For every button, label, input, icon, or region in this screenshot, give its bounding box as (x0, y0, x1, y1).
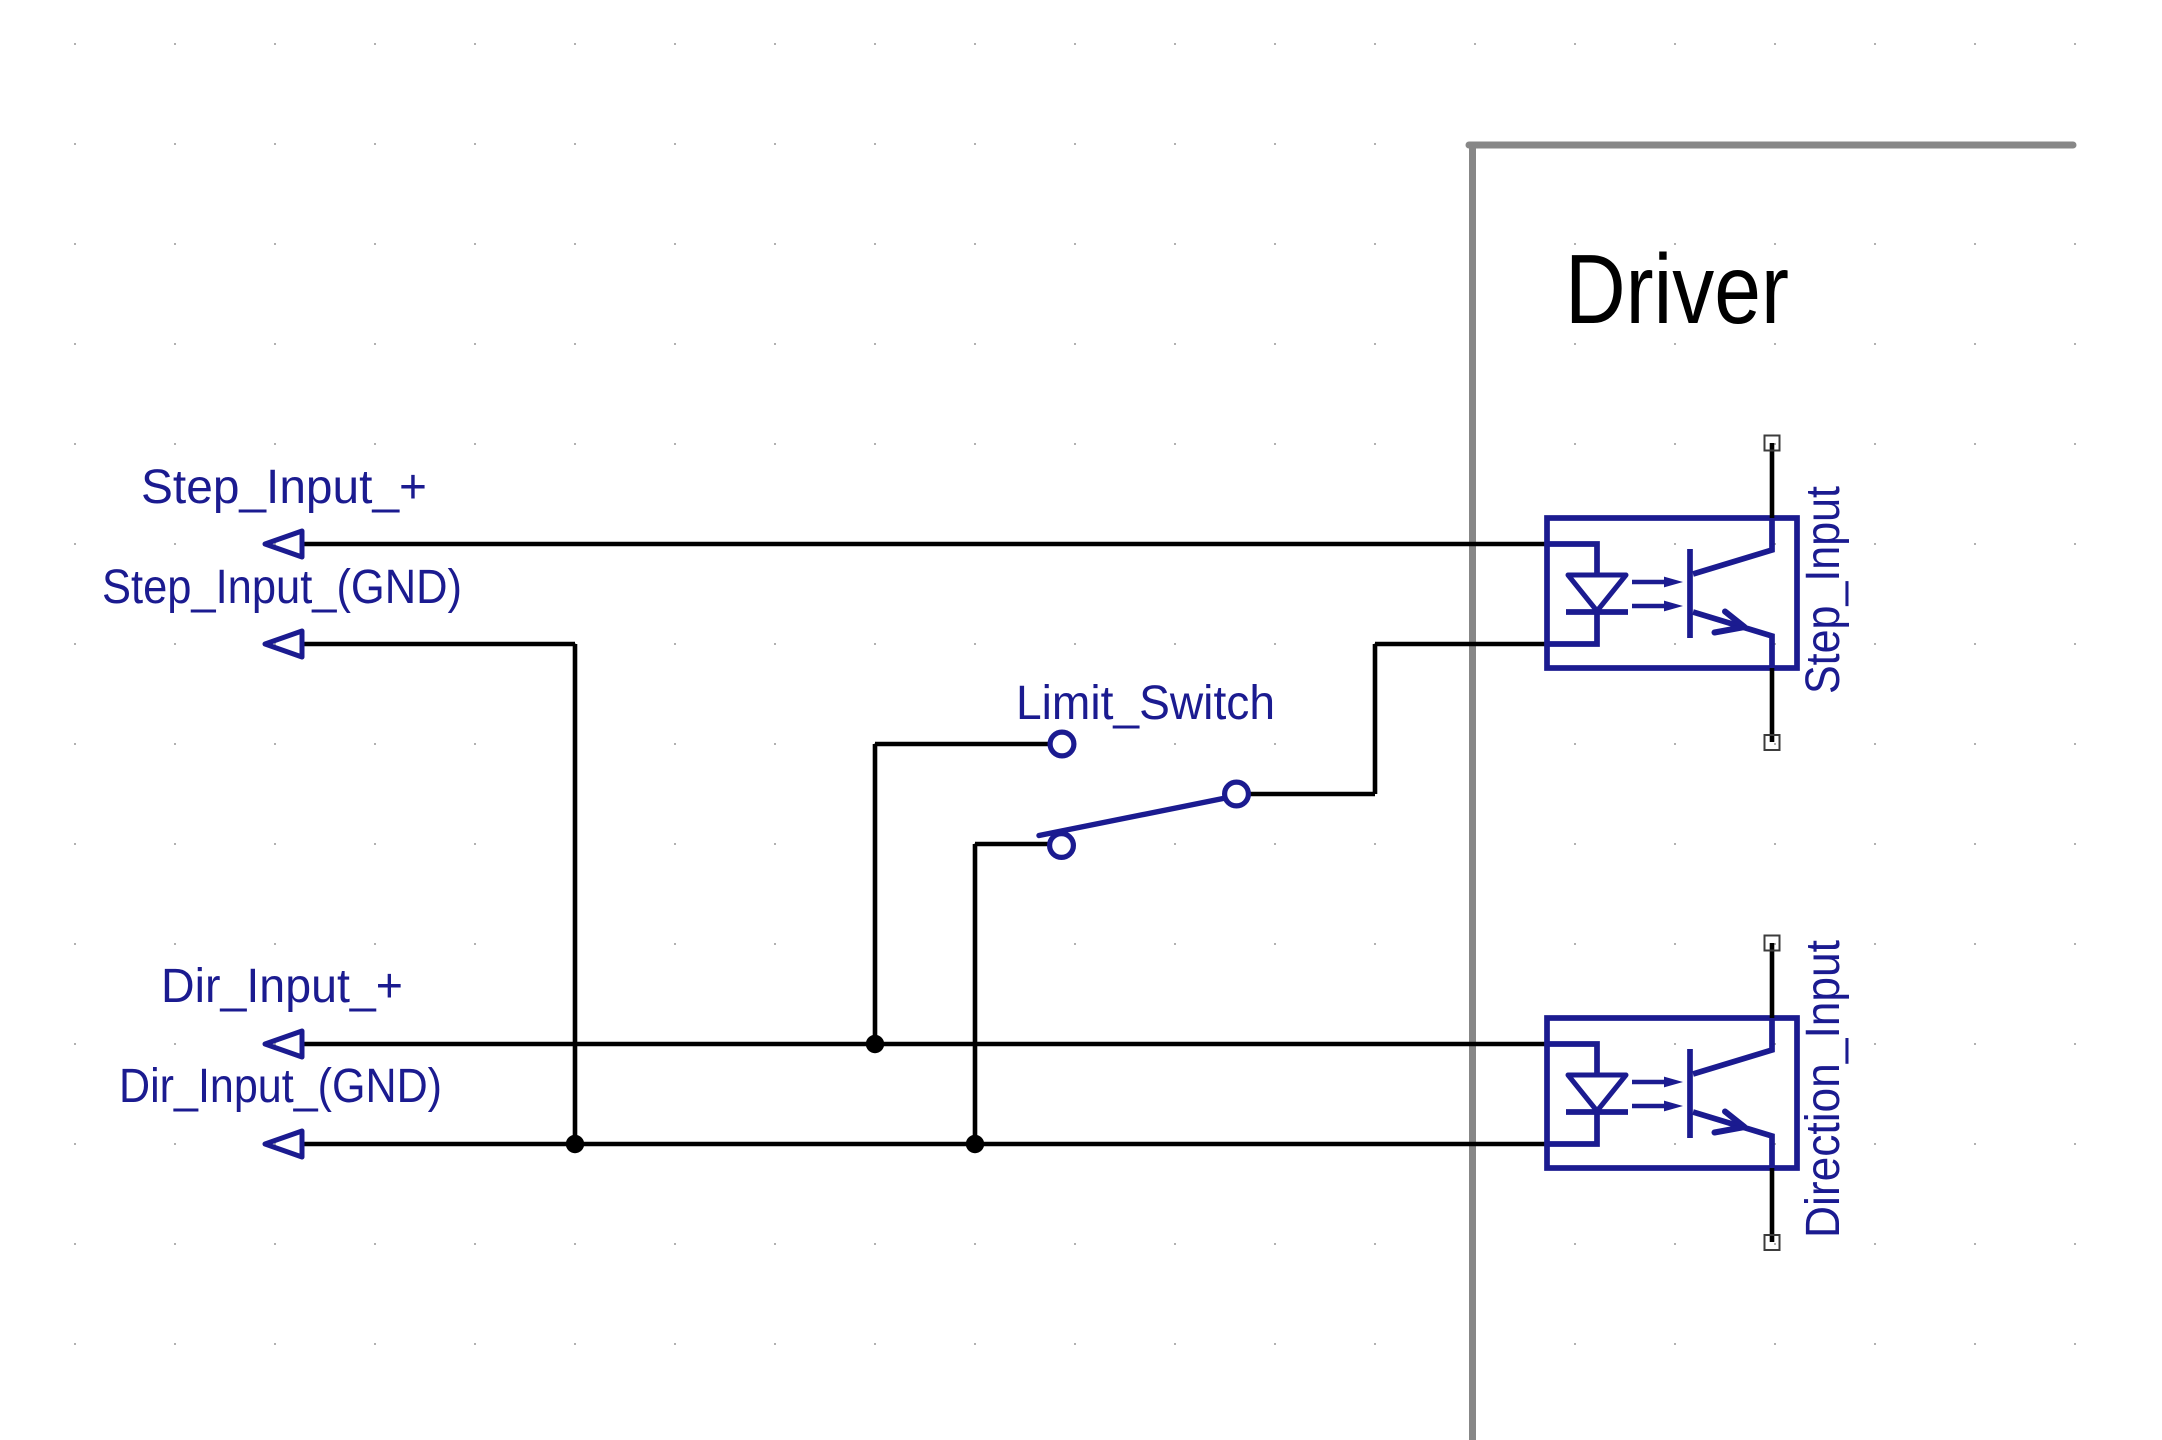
U1 light emission arrows (1632, 580, 1668, 585)
U1 phototransistor emitter (1693, 612, 1772, 668)
U1 LED anode/cathode leads (1547, 544, 1597, 644)
svg-text:Dir_Input_(GND): Dir_Input_(GND) (119, 1060, 442, 1113)
wire switch contact A horizontal (875, 742, 1049, 747)
hierarchical label arrow Step_Input_+ (265, 531, 302, 557)
U1 LED triangle (1568, 575, 1626, 611)
U2 collector pin open-end square (1765, 936, 1780, 951)
junction at switch-A / Dir_Input_+ (866, 1035, 884, 1053)
svg-text:Step_Input_+: Step_Input_+ (141, 461, 427, 514)
U2 phototransistor base bar (1687, 1049, 1693, 1138)
hierarchical sheet "Driver" boundary (top edge) (1469, 142, 2073, 149)
U1 phototransistor base bar (1687, 549, 1693, 638)
U2 emitter pin open-end square (1765, 1235, 1780, 1250)
optocoupler U2 body (1547, 1018, 1797, 1168)
hierarchical label arrow Dir_Input_+ (265, 1031, 302, 1057)
U1 phototransistor collector (1693, 518, 1772, 574)
wire Step_Input_+ : label arrow to U1 anode pin (302, 542, 1548, 547)
wire switch contact B horizontal (975, 842, 1049, 847)
U1 emitter arrow (1715, 612, 1745, 633)
svg-text:Limit_Switch: Limit_Switch (1016, 677, 1275, 730)
switch SW Limit_Switch contact A circle (1050, 732, 1074, 756)
switch SW Limit_Switch contact B circle (1050, 834, 1074, 858)
junction at Step GND / Dir GND (566, 1135, 584, 1153)
optocoupler U1 (Step channel) (1547, 436, 1797, 751)
wire Dir_Input_(GND) : label arrow to U2 cathode pin (302, 1142, 1548, 1147)
U2 emitter arrow (1715, 1112, 1745, 1133)
wire to switch common contact (1250, 792, 1375, 797)
wire switch contact B down to Dir_Input_(GND) net (973, 844, 978, 1144)
U2 phototransistor emitter (1693, 1112, 1772, 1168)
wire Step_Input_(GND) horizontal segment (302, 642, 575, 647)
U1 collector pin (1770, 443, 1775, 518)
U2 LED anode/cathode leads (1547, 1044, 1597, 1144)
hierarchical label arrow Dir_Input_(GND) (265, 1131, 302, 1157)
svg-text:Direction_Input: Direction_Input (1797, 940, 1850, 1238)
U1 collector pin open-end square (1765, 436, 1780, 451)
wire U1 cathode to corner (1375, 642, 1548, 647)
U1 LED cathode bar (1566, 609, 1628, 615)
switch SW Limit_Switch common contact circle (1225, 782, 1249, 806)
U2 light emission arrows (1632, 1080, 1668, 1085)
U2 phototransistor collector (1693, 1018, 1772, 1074)
U2 collector pin (1770, 943, 1775, 1018)
U2 emitter pin (1770, 1168, 1775, 1242)
wire Dir_Input_+ : label arrow to U2 anode pin (302, 1042, 1548, 1047)
optocoupler U1 body (1547, 518, 1797, 668)
wire Step_Input_(GND) vertical segment down to Dir GND net (573, 644, 578, 1144)
svg-text:Step_Input_(GND): Step_Input_(GND) (102, 561, 462, 614)
hierarchical label arrow Step_Input_(GND) (265, 631, 302, 657)
svg-text:Step_Input: Step_Input (1797, 486, 1850, 694)
U1 emitter pin (1770, 668, 1775, 742)
wire vertical down to switch common (1373, 644, 1378, 794)
optocoupler U2 (Direction channel) (1547, 936, 1797, 1251)
switch SW Limit_Switch lever (1039, 799, 1223, 836)
U2 LED cathode bar (1566, 1109, 1628, 1115)
U1 emitter pin open-end square (1765, 735, 1780, 750)
U2 LED triangle (1568, 1075, 1626, 1111)
svg-text:Dir_Input_+: Dir_Input_+ (161, 960, 403, 1013)
wire switch contact A down to Dir_Input_+ net (873, 744, 878, 1044)
hierarchical sheet "Driver" boundary (vertical edge) (1469, 145, 1476, 1440)
svg-text:Driver: Driver (1565, 234, 1789, 344)
junction at switch-B / Dir GND (966, 1135, 984, 1153)
